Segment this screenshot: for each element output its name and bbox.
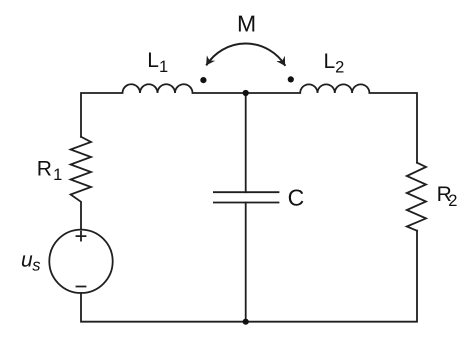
svg-text:2: 2 <box>448 192 457 210</box>
svg-text:u: u <box>21 248 33 271</box>
svg-text:2: 2 <box>335 59 344 77</box>
svg-text:1: 1 <box>53 166 62 184</box>
svg-text:1: 1 <box>159 58 168 76</box>
svg-text:s: s <box>32 256 40 274</box>
svg-text:L: L <box>147 49 159 72</box>
svg-text:C: C <box>288 184 305 210</box>
svg-text:M: M <box>237 11 256 37</box>
svg-text:L: L <box>324 50 336 73</box>
svg-text:R: R <box>37 158 52 181</box>
